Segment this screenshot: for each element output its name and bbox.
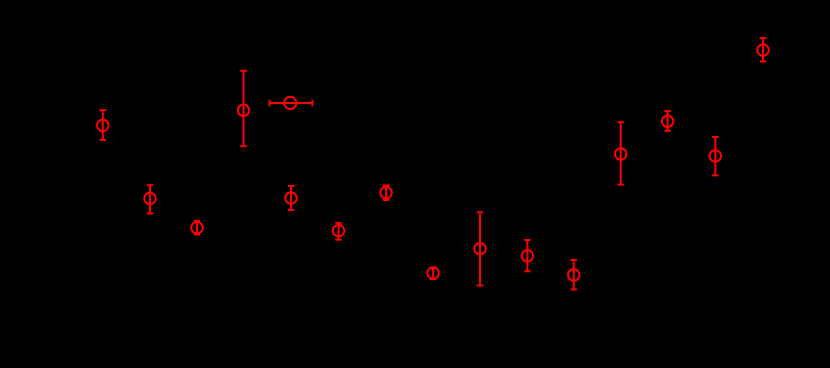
data point 2 with error bar [144,185,156,213]
data point 12 with error bar [615,122,627,184]
legend errorbar handle [269,97,312,109]
data point 9 with error bar [474,212,486,285]
data point 1 with error bar [97,110,109,140]
data point 10 with error bar [522,240,534,271]
data point 13 with error bar [662,111,674,131]
data point 8 with error bar [427,267,439,279]
data point 14 with error bar [710,137,722,175]
data point 3 with error bar [191,221,203,235]
data point 15 with error bar [757,38,769,62]
data point 11 with error bar [568,260,580,290]
data point 6 with error bar [333,223,345,240]
data point 5 with error bar [285,186,297,210]
data point 7 with error bar [380,185,392,200]
data point 4 with error bar [238,71,250,146]
